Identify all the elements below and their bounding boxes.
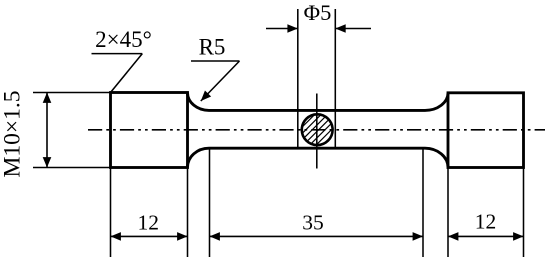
bottom extension line x=209.5 <box>209 149 211 257</box>
dia5 dimension line right with arrow <box>335 24 371 33</box>
bottom extension line x=423 <box>422 149 424 257</box>
gauge section top edge with fillets <box>188 93 449 111</box>
bottom extension line x=187.5 <box>187 168 189 257</box>
M10x1.5 dimension line with arrows <box>43 93 52 168</box>
vertical section line through circle <box>316 94 318 169</box>
bottom extension line x=523.5 <box>523 168 525 257</box>
svg-text:12: 12 <box>475 210 497 234</box>
section circle outline <box>302 114 333 145</box>
M10x1.5 extension line bottom <box>33 167 110 169</box>
M10x1.5 extension line top <box>33 92 110 94</box>
dimension line 12 left <box>111 232 188 241</box>
svg-text:35: 35 <box>302 211 324 235</box>
left head (threaded end) outline <box>111 93 188 168</box>
dia5 dimension line left with arrow <box>266 24 298 33</box>
section circle hatch <box>281 95 350 164</box>
chamfer leader underline <box>92 53 143 55</box>
svg-text:M10×1.5: M10×1.5 <box>0 90 26 177</box>
dimension line 12 right <box>448 232 524 241</box>
svg-text:Φ5: Φ5 <box>304 0 332 25</box>
centerline (horizontal dash-dot-dot axis) <box>88 129 545 131</box>
dimension line 35 <box>210 232 424 241</box>
right head (threaded end) outline <box>448 93 524 168</box>
dia5 extension line left <box>297 9 299 148</box>
svg-text:2×45°: 2×45° <box>95 27 152 52</box>
R5 leader diagonal with arrowhead <box>198 61 240 104</box>
dia5 extension line right <box>334 9 336 148</box>
chamfer leader diagonal <box>111 54 143 93</box>
svg-text:12: 12 <box>138 211 160 235</box>
R5 leader shoulder <box>191 60 240 62</box>
gauge section bottom edge with fillets <box>188 148 449 167</box>
bottom extension line x=448 <box>447 168 449 257</box>
bottom extension line x=110.5 <box>110 168 112 257</box>
svg-text:R5: R5 <box>199 35 226 60</box>
